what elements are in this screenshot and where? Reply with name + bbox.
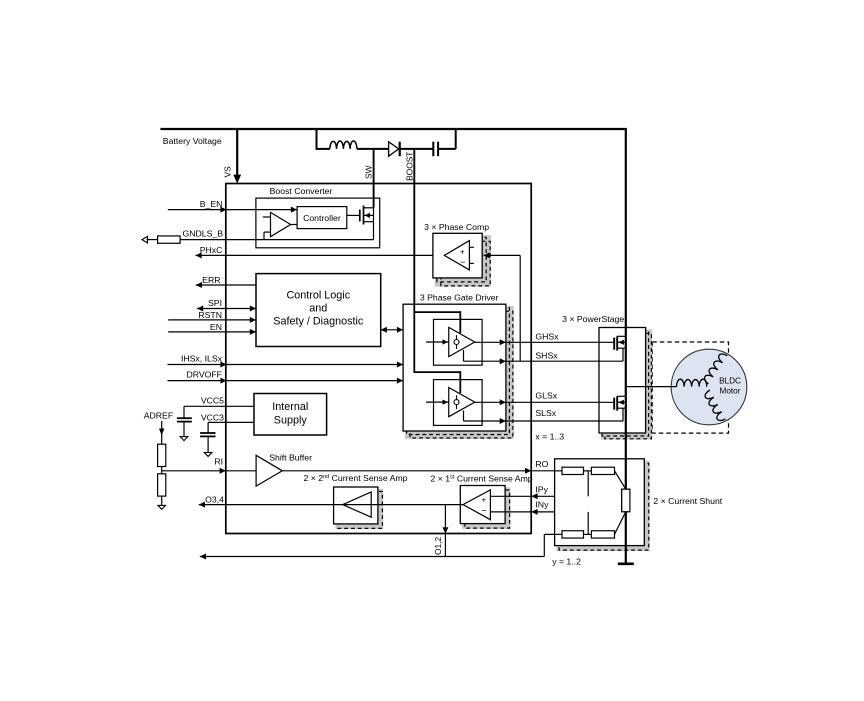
svg-text:3 × Phase Comp: 3 × Phase Comp	[424, 222, 489, 232]
svg-text:VS: VS	[223, 166, 233, 178]
svg-text:Internal: Internal	[272, 401, 308, 413]
svg-text:Shift Buffer: Shift Buffer	[269, 453, 312, 463]
svg-text:Safety / Diagnostic: Safety / Diagnostic	[273, 316, 364, 328]
svg-text:3 Phase Gate Driver: 3 Phase Gate Driver	[420, 293, 499, 303]
svg-text:+: +	[482, 496, 487, 505]
svg-text:−: −	[482, 506, 487, 516]
svg-text:2 × 2nd Current Sense Amp: 2 × 2nd Current Sense Amp	[304, 473, 408, 483]
svg-text:RI: RI	[214, 457, 223, 467]
svg-text:+: +	[460, 248, 465, 257]
svg-text:IPy: IPy	[535, 484, 548, 494]
svg-text:ERR: ERR	[202, 275, 220, 285]
svg-text:and: and	[309, 303, 327, 315]
svg-text:O3,4: O3,4	[205, 495, 224, 505]
svg-text:Controller: Controller	[303, 213, 341, 223]
svg-text:B_EN: B_EN	[200, 199, 223, 209]
svg-text:y = 1..2: y = 1..2	[552, 557, 581, 567]
svg-text:VCC5: VCC5	[201, 396, 224, 406]
svg-text:INy: INy	[535, 500, 549, 510]
svg-text:IHSx, ILSx: IHSx, ILSx	[181, 354, 223, 364]
svg-text:3 × PowerStage: 3 × PowerStage	[562, 314, 624, 324]
svg-text:BLDC: BLDC	[719, 377, 741, 386]
svg-text:x = 1..3: x = 1..3	[535, 432, 564, 442]
svg-text:SW: SW	[364, 165, 374, 179]
svg-text:EN: EN	[210, 322, 222, 332]
svg-text:PHxC: PHxC	[200, 245, 223, 255]
svg-text:VCC3: VCC3	[201, 413, 224, 423]
svg-text:BOOST: BOOST	[404, 152, 414, 181]
svg-text:GNDLS_B: GNDLS_B	[182, 228, 223, 238]
svg-text:DRVOFF: DRVOFF	[186, 370, 222, 380]
svg-text:RO: RO	[535, 459, 548, 469]
svg-text:SLSx: SLSx	[535, 408, 556, 418]
svg-text:Boost Converter: Boost Converter	[270, 186, 333, 196]
svg-text:−: −	[460, 257, 465, 267]
svg-text:Control Logic: Control Logic	[286, 290, 350, 302]
svg-text:ADREF: ADREF	[144, 411, 173, 421]
svg-text:Supply: Supply	[274, 415, 308, 427]
svg-text:Battery Voltage: Battery Voltage	[163, 136, 222, 146]
svg-text:GHSx: GHSx	[535, 331, 559, 341]
svg-text:SHSx: SHSx	[535, 350, 558, 360]
svg-text:2 × Current Shunt: 2 × Current Shunt	[653, 496, 722, 506]
svg-text:GLSx: GLSx	[535, 390, 557, 400]
svg-text:2 × 1st Current Sense Amp: 2 × 1st Current Sense Amp	[431, 474, 533, 484]
svg-text:O1,2: O1,2	[433, 537, 443, 555]
svg-text:SPI: SPI	[208, 298, 222, 308]
svg-text:RSTN: RSTN	[198, 310, 222, 320]
svg-text:Motor: Motor	[720, 387, 741, 396]
